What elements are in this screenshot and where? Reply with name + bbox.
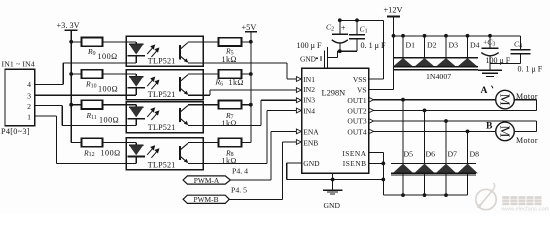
resistor R9 100ohm bbox=[82, 38, 103, 47]
junction +12V / diode rail bbox=[392, 34, 396, 38]
svg-text:ENB: ENB bbox=[303, 138, 318, 147]
junction +5V/R7 bbox=[249, 103, 253, 107]
junction rail/D4 bbox=[466, 34, 470, 38]
diode D3 bbox=[445, 36, 447, 58]
svg-text:D6: D6 bbox=[426, 150, 436, 159]
capacitor C3 100uF bbox=[489, 36, 491, 48]
svg-text:Motor: Motor bbox=[516, 136, 538, 145]
capacitor C2 100uF bbox=[339, 20, 341, 34]
junction C2 bottom bbox=[338, 49, 342, 53]
wire opto3 collector to R7 bbox=[203, 104, 219, 106]
svg-text:100Ω: 100Ω bbox=[98, 52, 118, 61]
svg-text:3: 3 bbox=[27, 91, 31, 100]
optocoupler U4 TLP521 box bbox=[126, 138, 203, 170]
svg-text:+12V: +12V bbox=[384, 6, 403, 15]
wire ISENA bbox=[369, 151, 384, 153]
wire opto3 emitter to IN3 bbox=[203, 124, 261, 126]
opto1 LED bbox=[126, 41, 136, 43]
svg-text:D8: D8 bbox=[470, 150, 480, 159]
wire +3.3V to R9 bbox=[71, 41, 81, 43]
junction rail/D2 bbox=[423, 34, 427, 38]
junction OUT1/D1 bbox=[401, 98, 405, 102]
svg-text:1kΩ: 1kΩ bbox=[222, 119, 237, 128]
svg-text:P4. 4: P4. 4 bbox=[232, 167, 248, 176]
svg-text:1kΩ: 1kΩ bbox=[229, 78, 244, 87]
svg-text:ENA: ENA bbox=[303, 127, 319, 136]
signal tag PWM-A bbox=[183, 176, 230, 184]
svg-text:D5: D5 bbox=[404, 150, 414, 159]
svg-text:M: M bbox=[498, 94, 513, 106]
wire C4 to ground bbox=[490, 63, 520, 65]
wire +3.3V to R11 bbox=[71, 104, 81, 106]
wire cap bottom node bbox=[337, 50, 357, 52]
wire ground bus bbox=[287, 179, 384, 181]
svg-text:OUT2: OUT2 bbox=[347, 106, 366, 115]
svg-text:L298N: L298N bbox=[322, 89, 346, 98]
svg-text:D1: D1 bbox=[406, 40, 416, 49]
svg-text:100Ω: 100Ω bbox=[98, 85, 118, 94]
svg-text:VSS: VSS bbox=[353, 75, 367, 84]
junction +5V/R5 bbox=[249, 40, 253, 44]
svg-text:+5V: +5V bbox=[242, 23, 257, 32]
svg-text:IN3: IN3 bbox=[303, 96, 315, 105]
junction bus/D7 bbox=[444, 193, 448, 197]
opto1 light arrows bbox=[147, 45, 159, 57]
diode D4 bbox=[467, 36, 469, 58]
pin marker ENA bbox=[296, 129, 301, 134]
junction ISEN/gnd bus bbox=[381, 178, 385, 182]
wire PWM-B to ENB bbox=[229, 198, 282, 200]
svg-text:www.elecfans.com: www.elecfans.com bbox=[501, 207, 550, 213]
junction +3.3V/R9 bbox=[69, 40, 73, 44]
signal tag PWM-B bbox=[183, 195, 229, 203]
junction C1 top bbox=[355, 18, 359, 22]
svg-text:TLP521: TLP521 bbox=[148, 160, 176, 169]
watermark logo bbox=[476, 183, 496, 210]
wire lower diode ground bus bbox=[383, 194, 467, 196]
diode D7 bbox=[445, 121, 447, 163]
svg-text:TLP521: TLP521 bbox=[148, 123, 176, 132]
pin marker IN3 bbox=[296, 98, 301, 103]
svg-text:100Ω: 100Ω bbox=[99, 116, 119, 125]
junction bus/D5 bbox=[401, 193, 405, 197]
junction rail/D3 bbox=[444, 34, 448, 38]
wire +12V rail to VS bbox=[393, 17, 395, 90]
wire R9 to opto1 anode bbox=[103, 41, 127, 43]
wire GND pin of L298N bbox=[287, 162, 302, 164]
wire R11 to opto3 anode bbox=[103, 104, 127, 106]
capacitor C4 0.1uF bbox=[519, 36, 521, 50]
junction +3.3V/R10 bbox=[69, 72, 73, 76]
wire R6 to +5V rail bbox=[242, 73, 251, 75]
svg-text:OUT4: OUT4 bbox=[347, 127, 366, 136]
junction +5V/R6 bbox=[249, 72, 253, 76]
pin marker OUT2 bbox=[369, 108, 374, 113]
svg-text:IN1 ~ IN4: IN1 ~ IN4 bbox=[2, 59, 35, 68]
wire cap top node bbox=[340, 19, 384, 21]
wire R8 to +5V rail bbox=[242, 142, 251, 144]
junction bus/D6 bbox=[423, 193, 427, 197]
capacitor C1 0.1uF bbox=[356, 20, 358, 34]
svg-text:100 μ F: 100 μ F bbox=[297, 41, 323, 50]
wire ISENB bbox=[369, 162, 384, 164]
wire opto2 collector to R6 bbox=[203, 73, 219, 75]
pin marker OUT4 bbox=[369, 129, 374, 134]
svg-text:Motor: Motor bbox=[516, 92, 538, 101]
svg-text:GND: GND bbox=[303, 159, 320, 168]
wire D5-D8 cathode bar bbox=[391, 162, 476, 164]
svg-text:100Ω: 100Ω bbox=[101, 149, 121, 158]
ground symbol under L298N bbox=[332, 173, 334, 189]
pin marker OUT1 bbox=[369, 97, 374, 102]
opto2 light arrows bbox=[147, 77, 159, 89]
svg-text:0. 1 μ F: 0. 1 μ F bbox=[518, 65, 543, 74]
resistor R6 1k bbox=[219, 70, 242, 78]
wire R12 to opto4 anode bbox=[103, 142, 127, 144]
wire OUT1 to motor A bbox=[374, 99, 496, 101]
opto2 LED bbox=[126, 73, 136, 75]
svg-text:TLP521: TLP521 bbox=[148, 57, 176, 66]
pin marker IN4 bbox=[296, 108, 301, 113]
svg-text:M: M bbox=[498, 125, 513, 137]
svg-text:VS: VS bbox=[357, 86, 367, 95]
svg-text:1: 1 bbox=[27, 113, 31, 122]
pin marker IN2 bbox=[296, 88, 301, 93]
resistor R5 1k bbox=[219, 38, 242, 46]
wire R5 to +5V rail bbox=[242, 41, 251, 43]
svg-text:P4[0~3]: P4[0~3] bbox=[1, 127, 30, 136]
svg-text:IN4: IN4 bbox=[303, 107, 315, 116]
diode D6 bbox=[424, 110, 426, 163]
diode D5 bbox=[402, 100, 404, 164]
svg-text:GND: GND bbox=[324, 201, 341, 210]
svg-text:PWM-B: PWM-B bbox=[193, 195, 218, 204]
optocoupler U1 TLP521 box bbox=[126, 36, 203, 66]
wire +3.3V rail bbox=[70, 30, 72, 142]
pin marker ENB bbox=[296, 140, 301, 145]
wire OUT4 to motor B bbox=[374, 130, 496, 132]
diode D1 bbox=[402, 36, 404, 58]
svg-text:0. 1 μ F: 0. 1 μ F bbox=[361, 41, 387, 50]
svg-text:+: + bbox=[341, 24, 346, 33]
opto3 LED bbox=[126, 104, 136, 106]
motor B bbox=[496, 122, 515, 141]
svg-text:IN1: IN1 bbox=[303, 75, 315, 84]
wire pin1 to opto4 cathode bbox=[35, 115, 57, 117]
wire PWM-A to ENA bbox=[230, 179, 271, 181]
svg-text:PWM-A: PWM-A bbox=[194, 176, 220, 185]
wire D5-D8 anode bar bbox=[391, 172, 476, 174]
opto2 phototransistor bbox=[179, 77, 181, 92]
wire OUT2 bbox=[374, 109, 537, 111]
resistor R8 1k bbox=[219, 138, 242, 146]
wire opto1 emitter to IN1 bbox=[203, 62, 287, 64]
svg-text:B: B bbox=[486, 121, 493, 132]
wire pin2 to opto3 cathode bbox=[35, 105, 63, 107]
ground at C3 bbox=[478, 69, 502, 71]
junction OUT4/D4 bbox=[466, 130, 470, 134]
svg-text:ISENB: ISENB bbox=[343, 159, 367, 168]
junction ISENA/ISENB bbox=[381, 162, 385, 166]
junction rail/C3 bbox=[488, 34, 492, 38]
wire +12V diode rail bbox=[394, 35, 521, 37]
svg-text:D4: D4 bbox=[470, 40, 480, 49]
junction OUT2/D2 bbox=[423, 109, 427, 113]
junction OUT3/D3 bbox=[444, 119, 448, 123]
wire VSS to cap node bbox=[369, 78, 384, 80]
wire OUT3 bbox=[374, 120, 537, 122]
resistor R7 1k bbox=[219, 101, 242, 109]
svg-text:OUT1: OUT1 bbox=[347, 96, 366, 105]
junction C2 top bbox=[338, 18, 342, 22]
svg-text:D3: D3 bbox=[449, 40, 459, 49]
wire opto1 collector to R5 bbox=[203, 41, 219, 43]
resistor R11 100ohm bbox=[82, 100, 103, 109]
wire pin3 to opto2 cathode bbox=[35, 94, 126, 96]
svg-text:A: A bbox=[481, 85, 488, 96]
wire opto2 emitter to IN2 bbox=[203, 94, 210, 96]
svg-text:IN2: IN2 bbox=[303, 85, 315, 94]
svg-text:D7: D7 bbox=[448, 150, 458, 159]
wire R7 to +5V rail bbox=[242, 104, 251, 106]
svg-text:OUT3: OUT3 bbox=[347, 117, 366, 126]
junction +3.3V/R11 bbox=[69, 103, 73, 107]
wire +3.3V to R12 bbox=[71, 142, 81, 144]
svg-text:D2: D2 bbox=[427, 40, 437, 49]
motor A bbox=[496, 90, 515, 109]
wire opto4 collector to R8 bbox=[203, 142, 219, 144]
optocoupler U2 TLP521 box bbox=[126, 70, 203, 100]
wire R10 to opto2 anode bbox=[103, 73, 127, 75]
resistor R10 100ohm bbox=[82, 70, 103, 79]
opto4 light arrows bbox=[147, 146, 159, 158]
connector P4 (header IN1-IN4) bbox=[5, 69, 35, 126]
pin marker OUT3 bbox=[369, 119, 374, 124]
svg-text:2: 2 bbox=[27, 102, 31, 111]
wire D1-D4 cathode bar bbox=[394, 57, 478, 59]
svg-text:1N4007: 1N4007 bbox=[426, 72, 451, 81]
opto4 phototransistor bbox=[179, 146, 181, 160]
diode D8 bbox=[467, 131, 469, 163]
opto4 LED bbox=[126, 142, 136, 144]
opto3 phototransistor bbox=[179, 108, 181, 122]
wire chip-top ground to C1/C2 bottom node bbox=[328, 56, 338, 58]
opto1 phototransistor bbox=[179, 45, 181, 60]
wire opto4 emitter to IN4 bbox=[203, 162, 267, 164]
svg-text:TLP521: TLP521 bbox=[148, 90, 176, 99]
wire D1-D4 anode bar bbox=[394, 66, 478, 68]
svg-text:1kΩ: 1kΩ bbox=[222, 157, 237, 166]
pin marker IN1 bbox=[296, 77, 301, 82]
resistor R12 100ohm bbox=[82, 138, 103, 147]
svg-text:4: 4 bbox=[27, 80, 31, 89]
opto3 light arrows bbox=[147, 108, 159, 120]
junction gnd bus / chip bottom bbox=[331, 178, 335, 182]
wire pin4 to opto1 cathode bbox=[35, 83, 64, 85]
svg-text:P4. 5: P4. 5 bbox=[231, 186, 247, 195]
junction rail/D1 bbox=[401, 34, 405, 38]
wire +5V rail bbox=[250, 32, 252, 143]
svg-text:ISENA: ISENA bbox=[342, 149, 366, 158]
wire +3.3V to R10 bbox=[71, 73, 81, 75]
svg-text:+3. 3V: +3. 3V bbox=[57, 21, 80, 30]
driver IC U5 L298N bbox=[302, 68, 369, 173]
svg-text:GND: GND bbox=[300, 54, 317, 63]
diode D2 bbox=[424, 36, 426, 58]
optocoupler U3 TLP521 box bbox=[126, 102, 203, 133]
